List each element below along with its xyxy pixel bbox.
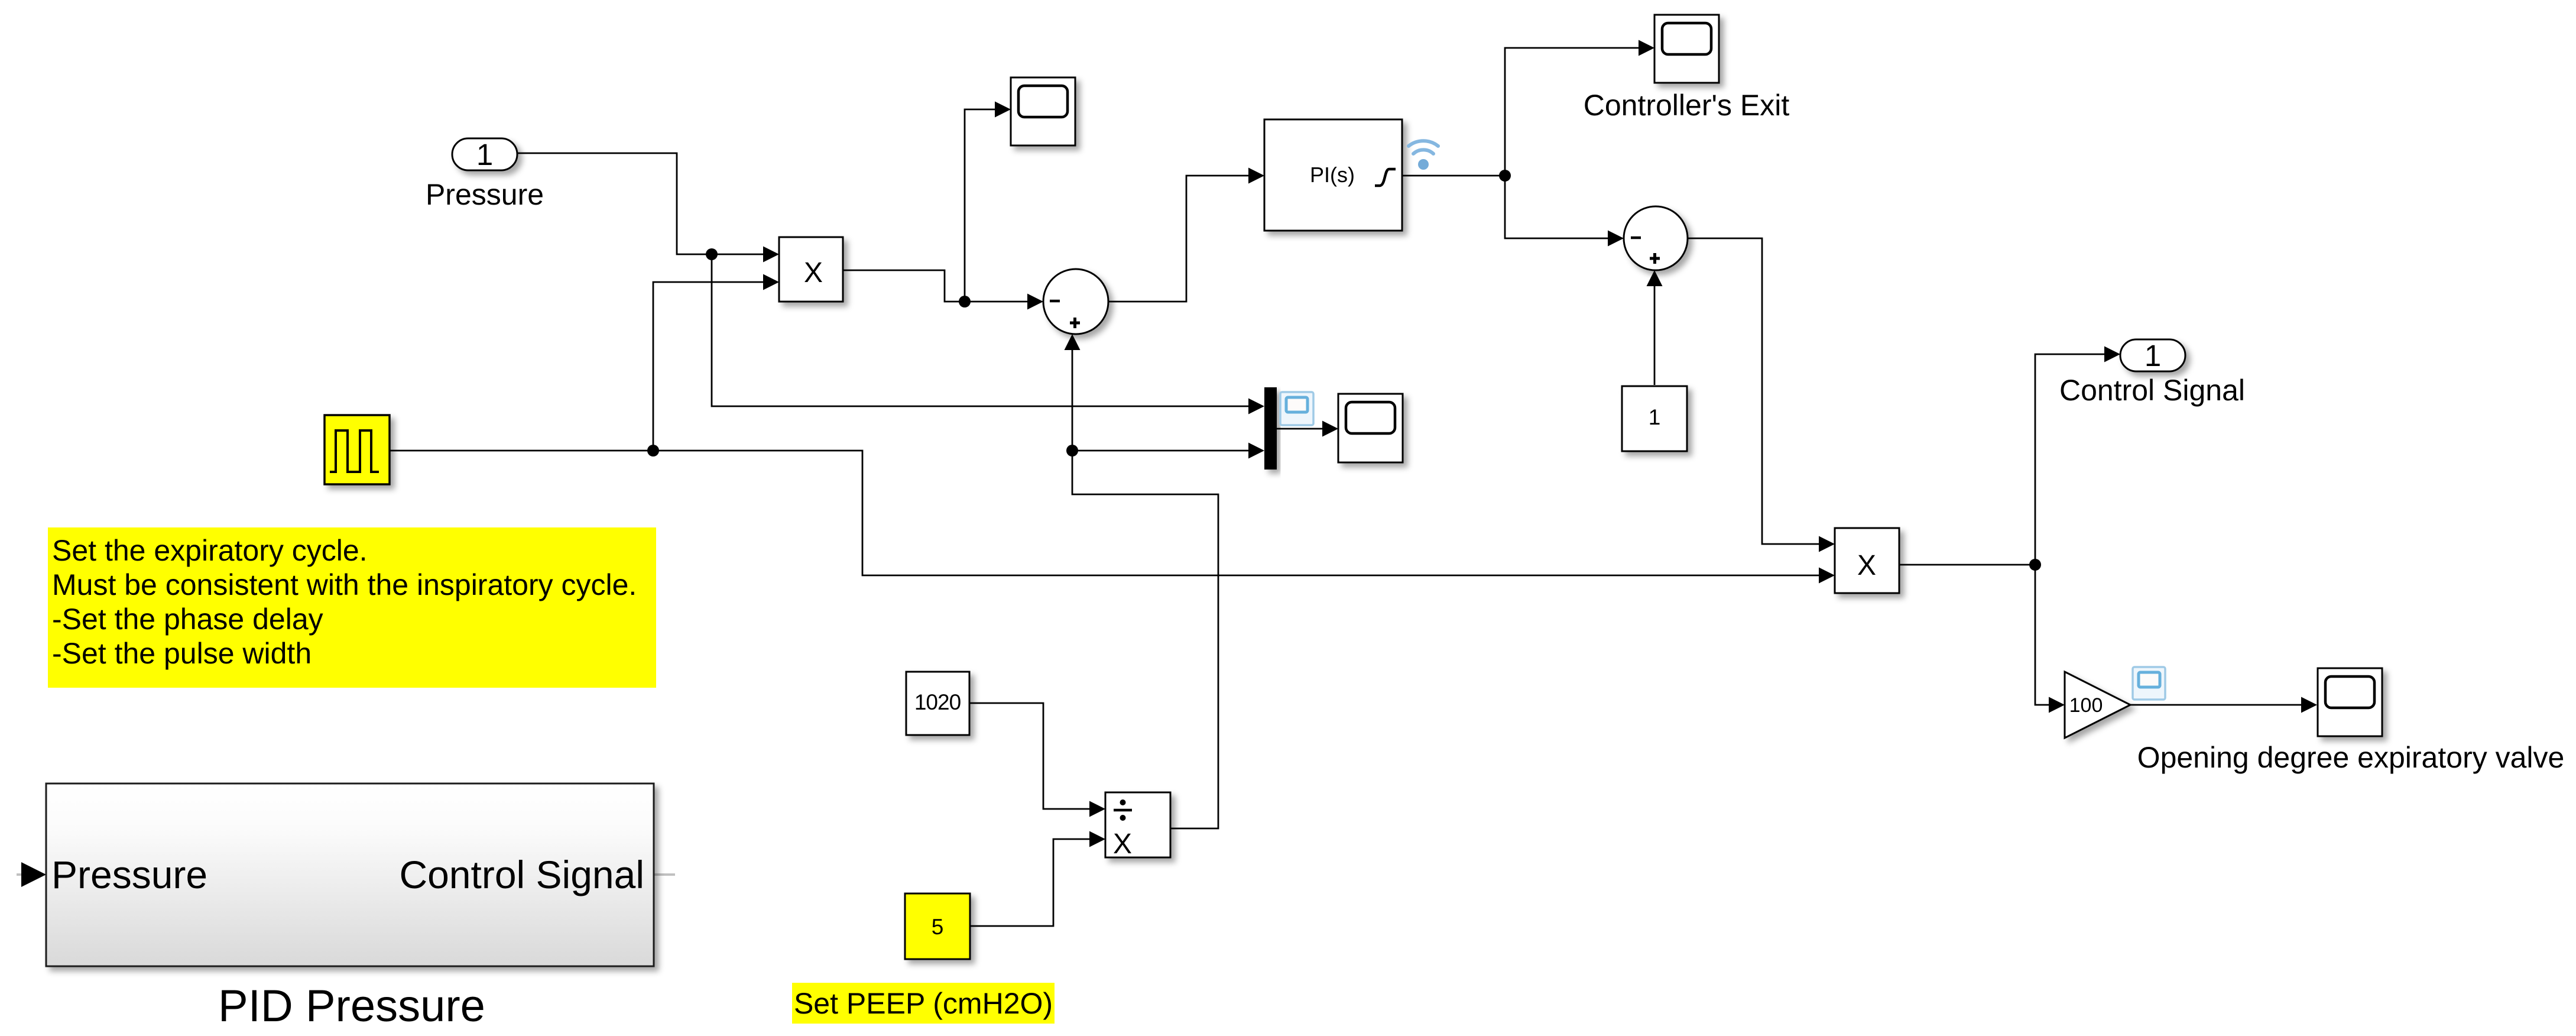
svg-text:Set the expiratory cycle.: Set the expiratory cycle. [52, 534, 368, 567]
wire Constant 5 to Divide input2 [970, 831, 1105, 927]
mux block [1264, 387, 1277, 470]
svg-text:5: 5 [932, 915, 944, 939]
wire Constant 1020 to Divide input1 [970, 703, 1105, 817]
svg-text:Pressure: Pressure [51, 853, 207, 896]
wire J2 to Product1 input2 [653, 274, 779, 451]
subsystem PID Pressure [46, 784, 654, 966]
wire Divide to Sum1 plus input [1065, 334, 1219, 828]
sum block Sum1 [1043, 269, 1108, 334]
node junction J3 [959, 296, 971, 307]
scope Scope3 [1338, 394, 1403, 462]
wire inport Pressure to Product1 [517, 153, 779, 263]
node junction J2 [647, 445, 659, 457]
svg-text:X: X [1113, 828, 1132, 860]
svg-text:-Set the pulse width: -Set the pulse width [52, 637, 312, 670]
node junction J4 [1499, 170, 1511, 182]
sum block Sum2 [1624, 206, 1688, 270]
wire J5 to Control Signal outport [2035, 347, 2120, 565]
node junction J6 [1066, 445, 1078, 457]
wire PID Pressure subsystem output stub [654, 873, 675, 876]
annotation Set PEEP label [792, 983, 1055, 1024]
wire Product2 output [1899, 564, 2035, 566]
wire J4 to Sum2 [1505, 176, 1624, 247]
svg-text:PID Pressure: PID Pressure [218, 981, 485, 1031]
scope Opening degree expiratory valve [2318, 668, 2382, 736]
svg-text:100: 100 [2069, 694, 2103, 717]
wire J5 to Gain [2035, 565, 2065, 713]
display icon near mux [1280, 392, 1313, 425]
wire Pulse Generator to Product2 input2 [390, 451, 1835, 584]
svg-text:Control Signal: Control Signal [399, 853, 644, 896]
wire PID Pressure subsystem input stub [17, 862, 46, 887]
wire J4 to Controller's Exit scope [1505, 40, 1654, 176]
constant block 1020 [906, 672, 969, 735]
svg-text:1: 1 [1649, 405, 1661, 429]
svg-text:Must be consistent with the in: Must be consistent with the inspiratory … [52, 568, 637, 601]
node junction J5 [2029, 559, 2041, 571]
wire J3 to Scope1 [965, 102, 1011, 302]
svg-text:-Set the phase delay: -Set the phase delay [52, 603, 323, 636]
node junction J1 [706, 248, 718, 260]
wire J1 to Mux input1 [712, 254, 1264, 415]
svg-text:PI(s): PI(s) [1310, 163, 1355, 187]
svg-text:X: X [804, 257, 823, 289]
svg-text:Opening degree expiratory valv: Opening degree expiratory valve [2137, 741, 2565, 774]
gain block 100 [2065, 672, 2130, 738]
outport 1 Control Signal [2120, 339, 2185, 373]
scope Scope1 [1011, 77, 1075, 145]
svg-text:Pressure: Pressure [426, 178, 544, 211]
product block Product1 [779, 237, 843, 302]
wire Mux to Scope3 [1277, 421, 1338, 437]
wire Constant1 to Sum2 plus input [1647, 270, 1663, 385]
wire Gain to Scope4 [2130, 697, 2317, 713]
wireless logging icon [1409, 141, 1438, 170]
svg-text:1: 1 [476, 138, 493, 171]
wire Sum1 to PID controller [1108, 168, 1264, 302]
display icon near gain [2133, 667, 2165, 700]
PID controller block PI(s) [1264, 119, 1402, 231]
annotation yellow note [48, 527, 656, 688]
svg-text:Controller's Exit: Controller's Exit [1584, 89, 1790, 122]
svg-text:X: X [1857, 550, 1876, 581]
scope Controller's Exit [1654, 15, 1719, 83]
divide block [1105, 792, 1170, 860]
product block Product2 [1835, 528, 1899, 593]
wire Product1 to Sum1 [843, 270, 1043, 310]
svg-text:Control Signal: Control Signal [2059, 374, 2245, 407]
constant block 5 [905, 893, 970, 959]
constant block 1 [1622, 386, 1687, 451]
pulse generator block [325, 415, 390, 484]
svg-text:1: 1 [2144, 339, 2161, 373]
svg-text:1020: 1020 [914, 690, 961, 714]
wire PID controller output [1402, 175, 1505, 177]
inport 1 Pressure [452, 138, 517, 171]
wire J6 to Mux input2 [1072, 443, 1264, 459]
wire Sum2 to Product2 input1 [1688, 238, 1835, 552]
svg-text:Set PEEP (cmH2O): Set PEEP (cmH2O) [794, 987, 1053, 1020]
